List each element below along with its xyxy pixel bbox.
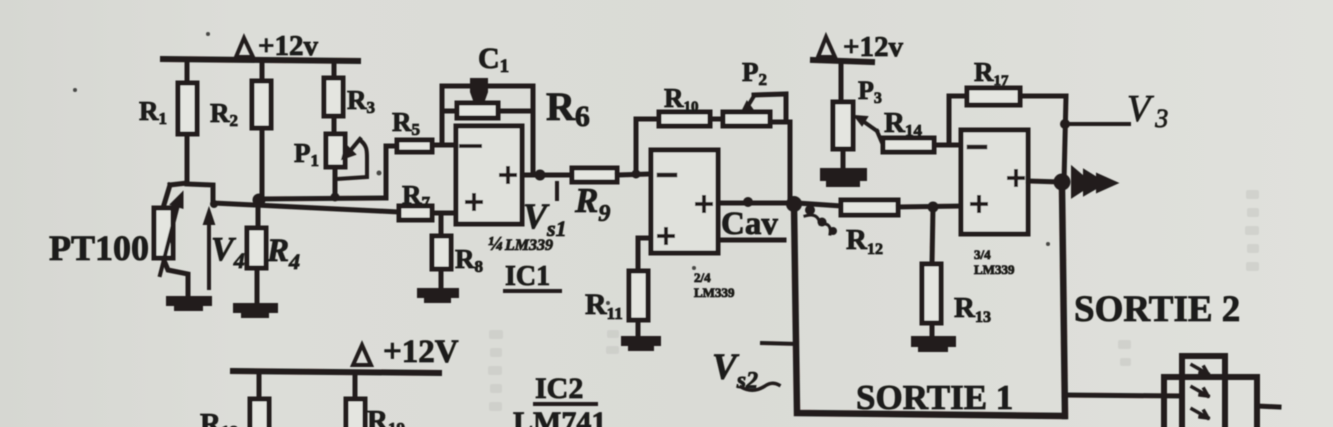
- svg-text:SORTIE 1: SORTIE 1: [856, 378, 1013, 417]
- ground (PT100): [166, 296, 212, 311]
- junction dot U1 output: [535, 170, 546, 181]
- resistor R19: [346, 373, 405, 427]
- potentiometer P2: [723, 57, 790, 126]
- wire bus A (R2/R4/P1 node to R5 riser): [259, 146, 386, 199]
- +12V rail 1: [163, 30, 358, 62]
- svg-text:3/4: 3/4: [974, 247, 991, 262]
- +12V rail 3 (bottom): [233, 334, 459, 373]
- +12V rail 2: [813, 31, 904, 63]
- junction blob U3 output node: [1054, 174, 1071, 191]
- sensor PT100: [49, 183, 188, 297]
- ground (P3): [820, 168, 867, 187]
- capacitor C1 and resistor R6 feedback: [442, 42, 590, 175]
- op-amp U3 (3/4 LM339): [961, 130, 1028, 277]
- voltage tap Vs1: [523, 183, 567, 241]
- junction dot Cav wire: [743, 197, 753, 207]
- node Cav label: [721, 206, 784, 242]
- svg-text:PT100: PT100: [49, 228, 149, 268]
- junction dot R12/R13: [928, 202, 939, 213]
- svg-text:¼LM339: ¼LM339: [488, 233, 553, 255]
- ground (R8): [417, 288, 459, 303]
- svg-text:+12V: +12V: [383, 334, 459, 370]
- resistor R9: [572, 168, 651, 227]
- resistor R1: [139, 61, 197, 183]
- svg-text:+12v: +12v: [258, 30, 319, 62]
- wire U2 feedback riser: [636, 119, 659, 174]
- junction dot bus B left: [210, 200, 218, 208]
- junction dot R9/feedback: [632, 170, 641, 179]
- svg-text:Cav: Cav: [721, 206, 778, 242]
- resistor R11: [585, 238, 651, 337]
- op-amp IC2 label: [513, 372, 606, 427]
- svg-text:IC2: IC2: [535, 372, 583, 405]
- output tap V3: [1060, 88, 1168, 133]
- scribble arrow at U3 output: [1072, 167, 1117, 197]
- paper specks: [73, 32, 1050, 305]
- op-amp U1 (1/4 LM339): [456, 126, 560, 292]
- node A junction dot: [253, 194, 266, 207]
- svg-text:2/4: 2/4: [694, 270, 711, 285]
- resistor R5: [386, 107, 456, 152]
- ground (R13): [911, 336, 956, 352]
- svg-text:IC1: IC1: [505, 261, 550, 292]
- junction blob U2 output node: [786, 196, 802, 212]
- svg-text:+12v: +12v: [843, 31, 904, 63]
- resistor R13: [922, 207, 991, 337]
- connector block: [1164, 356, 1279, 427]
- resistor R4: [247, 199, 300, 303]
- wire op-amp U1 output: [522, 173, 572, 178]
- voltage tap Vs2: [712, 343, 797, 394]
- resistor R2: [210, 61, 271, 199]
- voltage arrow V4: [204, 209, 245, 288]
- ground (R4): [233, 303, 278, 318]
- potentiometer P3: [833, 62, 883, 169]
- svg-text:SORTIE 2: SORTIE 2: [1074, 289, 1240, 330]
- svg-text:LM741: LM741: [513, 406, 606, 427]
- wire SORTIE 1: [794, 204, 1064, 416]
- resistor R18: [200, 373, 269, 427]
- wire bus B (R1/PT100 node to R7): [213, 203, 399, 212]
- potentiometer P1: [294, 134, 367, 197]
- junction dot P1 bottom: [331, 193, 340, 202]
- svg-text:LM339: LM339: [974, 262, 1015, 277]
- resistor R17 feedback: [949, 57, 1066, 182]
- resistor R10: [659, 83, 723, 126]
- ground (R11): [621, 336, 661, 351]
- wire U3 output: [1028, 181, 1062, 182]
- wire SORTIE 2: [1062, 186, 1182, 416]
- wire U2 output: [718, 201, 797, 206]
- svg-text:LM339: LM339: [694, 285, 735, 300]
- pen scribble marks near R12: [805, 205, 837, 235]
- resistor R8: [432, 214, 483, 289]
- wire P2 to output node: [788, 122, 793, 202]
- node wire R1/PT100 to bus: [187, 184, 213, 203]
- resistor R7: [399, 180, 456, 220]
- resistor R12: [797, 200, 961, 258]
- op-amp U2 (2/4 LM339): [651, 150, 735, 300]
- resistor R3: [324, 61, 375, 134]
- resistor R14: [883, 107, 961, 152]
